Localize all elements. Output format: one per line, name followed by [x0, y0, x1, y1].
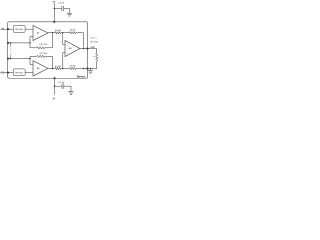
node A1 output junction — [52, 32, 53, 33]
wire A2 output — [48, 68, 55, 70]
wire node Y to A3 non-inverting input — [63, 53, 65, 69]
wire A3 output to VOUT — [80, 48, 97, 50]
wire R1 left — [30, 47, 37, 49]
wire RF filter 2 to A2 — [25, 72, 33, 74]
svg-text:+IN: +IN — [0, 72, 4, 75]
resistor R4 24.7 kOhm — [37, 55, 45, 57]
op-amp A1 — [33, 26, 48, 41]
ground symbol at C1 — [67, 12, 72, 14]
pin REF square — [87, 68, 89, 70]
wire R6 to REF pin and out to load — [76, 68, 97, 70]
wire V+ to C1 — [54, 7, 62, 9]
pin OUT square — [87, 48, 89, 50]
wire V+ down to pin — [53, 3, 55, 22]
capacitor C2 plates — [61, 84, 63, 89]
svg-text:49.4 kΩ: 49.4 kΩ — [90, 42, 98, 44]
resistor R5 40 kOhm — [55, 67, 61, 69]
node output feedback junction — [83, 48, 84, 49]
resistor R6 40 kOhm — [70, 67, 77, 69]
svg-text:−IN: −IN — [0, 28, 4, 31]
svg-text:G = 1 +: G = 1 + — [90, 38, 98, 40]
wire R2 to node X — [61, 32, 70, 34]
wire RG pin 2 row — [9, 58, 30, 60]
node X junction — [62, 32, 63, 33]
pin RG2 square — [7, 58, 9, 60]
svg-text:40 kΩ: 40 kΩ — [70, 65, 76, 67]
ground symbol at C2 — [68, 91, 73, 93]
node A2 output junction — [52, 68, 53, 69]
wire node X to A3 inverting input — [63, 33, 65, 45]
resistor R1 24.7 kOhm — [37, 47, 45, 49]
wire RG pin 1 row — [9, 42, 30, 44]
wire RG vertical upper — [10, 43, 12, 47]
wire R5 to node Y — [61, 68, 70, 70]
svg-text:VOUT: VOUT — [90, 47, 95, 49]
svg-text:0.1 µF: 0.1 µF — [58, 2, 65, 4]
node V- junction — [54, 86, 55, 87]
wire R4 left — [30, 55, 37, 57]
wire C1 to ground — [64, 8, 70, 13]
wire R1 right + up to A1 output — [45, 33, 53, 48]
node V+ junction — [54, 8, 55, 9]
wire V- to C2 — [55, 85, 63, 87]
capacitor C1 plates — [61, 6, 63, 11]
ground symbol at REF — [90, 69, 92, 71]
pin V- square — [54, 77, 56, 79]
node dot RG2 inner — [10, 58, 11, 59]
node Y junction — [62, 68, 63, 69]
pin RG1 square — [7, 42, 9, 44]
wire A1 output — [48, 32, 55, 34]
RF filter 1 block — [13, 26, 25, 33]
svg-text:40 kΩ: 40 kΩ — [70, 30, 76, 32]
resistor R3 40 kOhm — [70, 32, 77, 34]
node junction RG1 — [29, 42, 30, 43]
resistor R2 40 kOhm — [55, 32, 61, 34]
svg-text:V−: V− — [53, 98, 57, 100]
op-amp A3 — [65, 41, 80, 57]
node dot RG1 inner — [10, 42, 11, 43]
wire V- up to pin — [54, 78, 56, 95]
node dot at R6 right — [83, 68, 84, 69]
svg-text:40 kΩ: 40 kΩ — [55, 30, 61, 32]
device outline box U1 — [8, 22, 88, 78]
wire -IN to RF filter 1 — [4, 28, 13, 30]
wire R4 right + down to A2 output — [45, 56, 53, 68]
wire A2 inverting input stub — [30, 63, 33, 65]
wire +IN to RF filter 2 — [4, 72, 13, 74]
RF filter 2 block — [13, 69, 25, 76]
wire node vertical at x30 top — [29, 37, 31, 48]
node junction RG2 — [29, 58, 30, 59]
svg-text:RL: RL — [93, 56, 95, 58]
node REF ground junction — [90, 68, 91, 69]
svg-text:24.7 kΩ: 24.7 kΩ — [39, 53, 47, 55]
svg-text:40 kΩ: 40 kΩ — [55, 66, 61, 68]
pin V+ square — [53, 21, 55, 23]
op-amp A2 — [33, 61, 48, 76]
pin -IN square — [7, 28, 9, 30]
svg-text:24.7 kΩ: 24.7 kΩ — [39, 44, 47, 46]
wire R3 right + down to output node — [76, 33, 84, 49]
wire C2 to ground — [64, 86, 71, 91]
wire RF filter 1 to A1 — [25, 28, 33, 30]
pin +IN square — [7, 72, 9, 74]
wire A1 inverting input stub — [30, 36, 33, 38]
resistor RG (external) — [10, 47, 12, 55]
wire RG vertical lower — [10, 55, 12, 59]
wire node vertical at x30 bottom — [29, 56, 31, 64]
resistor RL load — [96, 49, 98, 54]
